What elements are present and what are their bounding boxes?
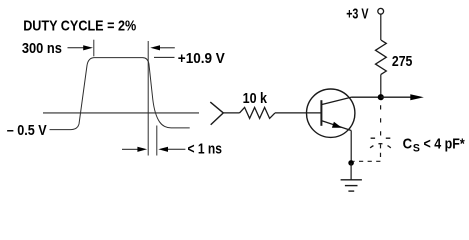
ground bbox=[341, 180, 362, 191]
transistor Q1 collector lead bbox=[321, 97, 351, 104]
wire dashed stray-capacitance branch (vertical from node) bbox=[380, 105, 382, 135]
resistor 10 k bbox=[240, 107, 276, 118]
transistor Q1 base bar bbox=[320, 100, 322, 126]
wire 300ns left arrow bbox=[68, 45, 93, 50]
svg-text:< 4 pF*: < 4 pF* bbox=[424, 137, 465, 153]
svg-text:275: 275 bbox=[392, 54, 413, 70]
wire resistor to base bbox=[275, 112, 321, 114]
wire collector to output node bbox=[351, 96, 381, 98]
svg-text:300 ns: 300 ns bbox=[22, 41, 62, 57]
wire pulse waveform bbox=[50, 58, 190, 130]
svg-text:S: S bbox=[413, 142, 420, 154]
wire junction to ground bbox=[350, 163, 352, 180]
wire terminal to resistor 275 bbox=[380, 14, 382, 40]
svg-text:+10.9 V: +10.9 V bbox=[178, 51, 225, 67]
node axis line (0V reference) bbox=[43, 112, 199, 114]
node 300ns right long tick bbox=[147, 41, 149, 156]
svg-text:< 1 ns: < 1 ns bbox=[188, 142, 223, 158]
wire chevron to resistor bbox=[223, 112, 239, 114]
svg-text:– 0.5 V: – 0.5 V bbox=[7, 123, 47, 139]
node emitter junction dot bbox=[348, 160, 354, 166]
node input terminal chevron bbox=[210, 102, 223, 125]
node 300ns left tick bbox=[93, 40, 95, 57]
node +10.9V level line bbox=[154, 56, 175, 58]
resistor 275 bbox=[376, 40, 387, 74]
node <1ns right tick bbox=[156, 126, 158, 156]
transistor Q1 circle bbox=[307, 89, 355, 137]
wire <1ns right arrow bbox=[158, 147, 185, 152]
wire <1ns left arrow bbox=[122, 147, 147, 152]
wire output arrow bbox=[381, 94, 424, 100]
node collector junction dot bbox=[378, 94, 384, 100]
node +3V terminal circle bbox=[378, 8, 384, 14]
svg-text:10 k: 10 k bbox=[243, 91, 268, 107]
transistor Q1 emitter arrowhead bbox=[332, 122, 342, 128]
capacitor CS top plate (dashed) bbox=[371, 137, 391, 139]
svg-text:+3 V: +3 V bbox=[346, 6, 368, 22]
svg-text:C: C bbox=[403, 137, 413, 153]
wire emitter to ground junction bbox=[350, 131, 352, 163]
svg-text:DUTY CYCLE = 2%: DUTY CYCLE = 2% bbox=[23, 19, 136, 35]
wire dashed from capacitor down and left to emitter junction bbox=[354, 144, 381, 161]
wire 300ns right arrow bbox=[150, 45, 175, 50]
wire resistor 275 to collector node bbox=[380, 74, 382, 97]
capacitor CS curved bottom plate (dashed) bbox=[370, 144, 391, 148]
transistor Q1 emitter lead bbox=[321, 121, 351, 131]
